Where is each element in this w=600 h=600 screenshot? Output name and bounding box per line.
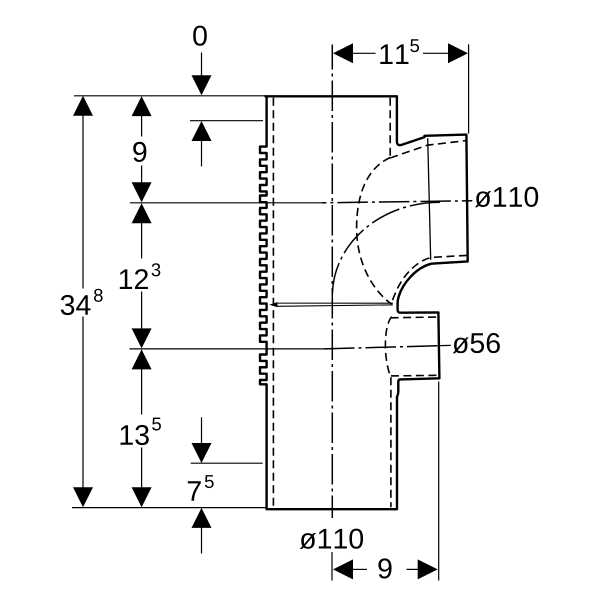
dim line 12.3 seg a: [141, 222, 143, 258]
dim line 11.5 seg b: [423, 52, 450, 54]
arrow 11.5 right: [448, 43, 468, 63]
arrow 7.5 top down: [192, 443, 212, 463]
label 7: [188, 481, 201, 501]
extension line 9 right: [438, 382, 440, 581]
arrow 9-bottom left: [333, 559, 353, 579]
label o110 bottom: [300, 529, 363, 549]
arrow 9 bottom down: [132, 182, 152, 202]
centerline o110 branch: [322, 201, 472, 203]
label 7 sup 5: [205, 475, 214, 488]
arrow insertion-depth up: [192, 121, 212, 141]
arrow 13.5 top up: [132, 349, 152, 369]
hidden line: inner wall left: [272, 98, 274, 507]
arrow 7.5 bottom up: [192, 508, 212, 528]
label 0: [193, 26, 207, 46]
arrow 12.3 bottom down: [132, 328, 152, 348]
label 12 sup 3: [152, 263, 161, 276]
dim line 34.8 upper seg: [82, 115, 84, 289]
extension line 11.5 right: [468, 44, 470, 133]
arrow 0-level down: [192, 75, 212, 95]
label 11 sup 5: [410, 39, 419, 52]
line bottom level: [72, 507, 266, 509]
hidden line: inner wall right upper: [389, 98, 391, 157]
arrow 11.5 left: [333, 43, 353, 63]
pointer to inner pipe wall (double-line arrow): [269, 302, 393, 307]
arrow 34.8 top up: [73, 96, 93, 116]
label 9: [133, 142, 146, 162]
label o110 right: [475, 187, 538, 207]
line 7.5 upper level: [191, 462, 263, 464]
arrow 12.3 top up: [132, 203, 152, 223]
dim line 9-bottom seg b: [407, 568, 420, 570]
arrow 13.5 bottom down: [132, 487, 152, 507]
dim line 13.5 seg b: [141, 448, 143, 489]
label 13: [121, 425, 149, 445]
hidden line: inner bore sweep arc o110: [357, 158, 392, 305]
arrow 9 top up: [132, 96, 152, 116]
hidden line: inner socket o56 top: [391, 316, 439, 319]
line 0-level: [74, 95, 266, 97]
label 12: [120, 269, 148, 289]
dim line 12.3 seg b: [141, 292, 143, 330]
arrow 34.8 bottom down: [73, 487, 93, 507]
line level o56 axis: [130, 348, 325, 350]
stem arrow 7.5 bottom: [201, 527, 203, 554]
stem arrow 0: [201, 53, 203, 77]
centerline o56 branch: [324, 346, 440, 349]
label 13 sup 5: [152, 418, 161, 431]
dim line 11.5 seg a: [352, 52, 376, 54]
hidden line: inner socket o110 bottom: [392, 255, 467, 303]
arrow 9-bottom right: [418, 559, 438, 579]
dim line 34.8 lower seg: [82, 317, 84, 489]
hidden line: inner wall right lower: [390, 377, 392, 507]
label o56: [453, 333, 500, 353]
dim line 13.5 seg a: [141, 368, 143, 414]
o110 socket face line: [428, 138, 431, 260]
hidden line: inner bore slope to socket o110: [390, 141, 466, 158]
dim line 9-bottom seg a: [352, 568, 367, 570]
label 11: [380, 44, 408, 64]
line insertion depth: [190, 120, 263, 122]
centerline bend arc: [332, 202, 440, 295]
centerline vertical: [331, 45, 333, 519]
hidden line: inner bore bulge o56: [385, 317, 391, 378]
label 34 sup 8: [94, 289, 103, 302]
dim line 9 seg a: [141, 115, 143, 137]
extension centerline bottom: [331, 552, 333, 581]
label 34: [61, 295, 91, 315]
hidden line: inner socket o56 bottom: [391, 374, 439, 377]
stem arrow insertion: [201, 140, 203, 167]
stem arrow 7.5 top: [201, 417, 203, 444]
leader o56: [440, 344, 451, 346]
line level o110 axis: [130, 202, 322, 204]
label 9 bottom: [378, 558, 391, 578]
dim line 9 seg b: [141, 166, 143, 184]
fitting outer contour (main pipe with serrated left edge, o110 and o56 branch sockets): [260, 96, 468, 509]
